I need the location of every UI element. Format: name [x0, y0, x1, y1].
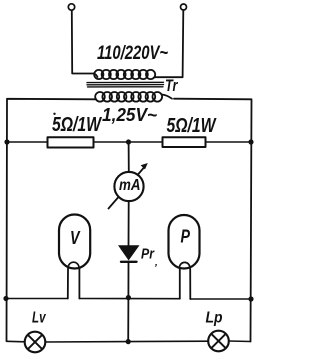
terminal right [181, 4, 187, 10]
tube P base bump [179, 262, 189, 268]
svg-text:Lp: Lp [206, 309, 223, 326]
meter arrow [109, 168, 145, 209]
resistor row wire [7, 141, 251, 143]
wire meter to diode [128, 201, 130, 245]
meter mA [114, 172, 143, 201]
tube V legs [67, 269, 69, 299]
tube V base bump [68, 262, 79, 268]
node center / tube row [126, 295, 131, 300]
svg-text:1,25V~: 1,25V~ [102, 105, 157, 125]
node right edge / resistor row [248, 139, 253, 144]
wire diode down [127, 262, 129, 298]
svg-text:Lv: Lv [32, 309, 46, 326]
outer rectangle wires [7, 99, 97, 341]
svg-text:mA: mA [119, 177, 141, 194]
node right edge / tube row [248, 296, 253, 301]
svg-text:5Ω/1W: 5Ω/1W [52, 113, 102, 136]
wire [72, 10, 94, 73]
svg-text:P: P [181, 226, 191, 247]
svg-text:110/220V~: 110/220V~ [97, 43, 168, 64]
resistor R 5Ω/1W left [48, 137, 94, 147]
node center / lamp row [126, 339, 131, 344]
node left edge / resistor row [4, 139, 9, 144]
tube row wire [5, 298, 68, 300]
transformer Tr primary winding [94, 70, 156, 79]
transformer Tr core [87, 82, 164, 87]
svg-text:V: V [70, 227, 81, 248]
lamp row wire [7, 340, 25, 343]
wire center down to meter [128, 142, 130, 172]
node center / resistor row [126, 139, 131, 144]
svg-text:,: , [154, 258, 158, 269]
node left edge / tube row [3, 296, 8, 301]
svg-text:5Ω/1W: 5Ω/1W [167, 114, 217, 137]
tube V envelope [59, 215, 90, 269]
resistor R 5Ω/1W right [163, 137, 206, 147]
lamp Lp [208, 331, 229, 352]
tube P envelope [169, 215, 200, 269]
terminal left [68, 4, 74, 10]
transformer Tr secondary winding [95, 92, 172, 102]
lamp Lv [25, 332, 46, 353]
svg-text:Pr: Pr [141, 246, 155, 263]
wire [156, 10, 184, 77]
tube P legs [179, 269, 181, 299]
svg-text:Tr: Tr [165, 77, 179, 95]
diode Pr [118, 245, 140, 260]
